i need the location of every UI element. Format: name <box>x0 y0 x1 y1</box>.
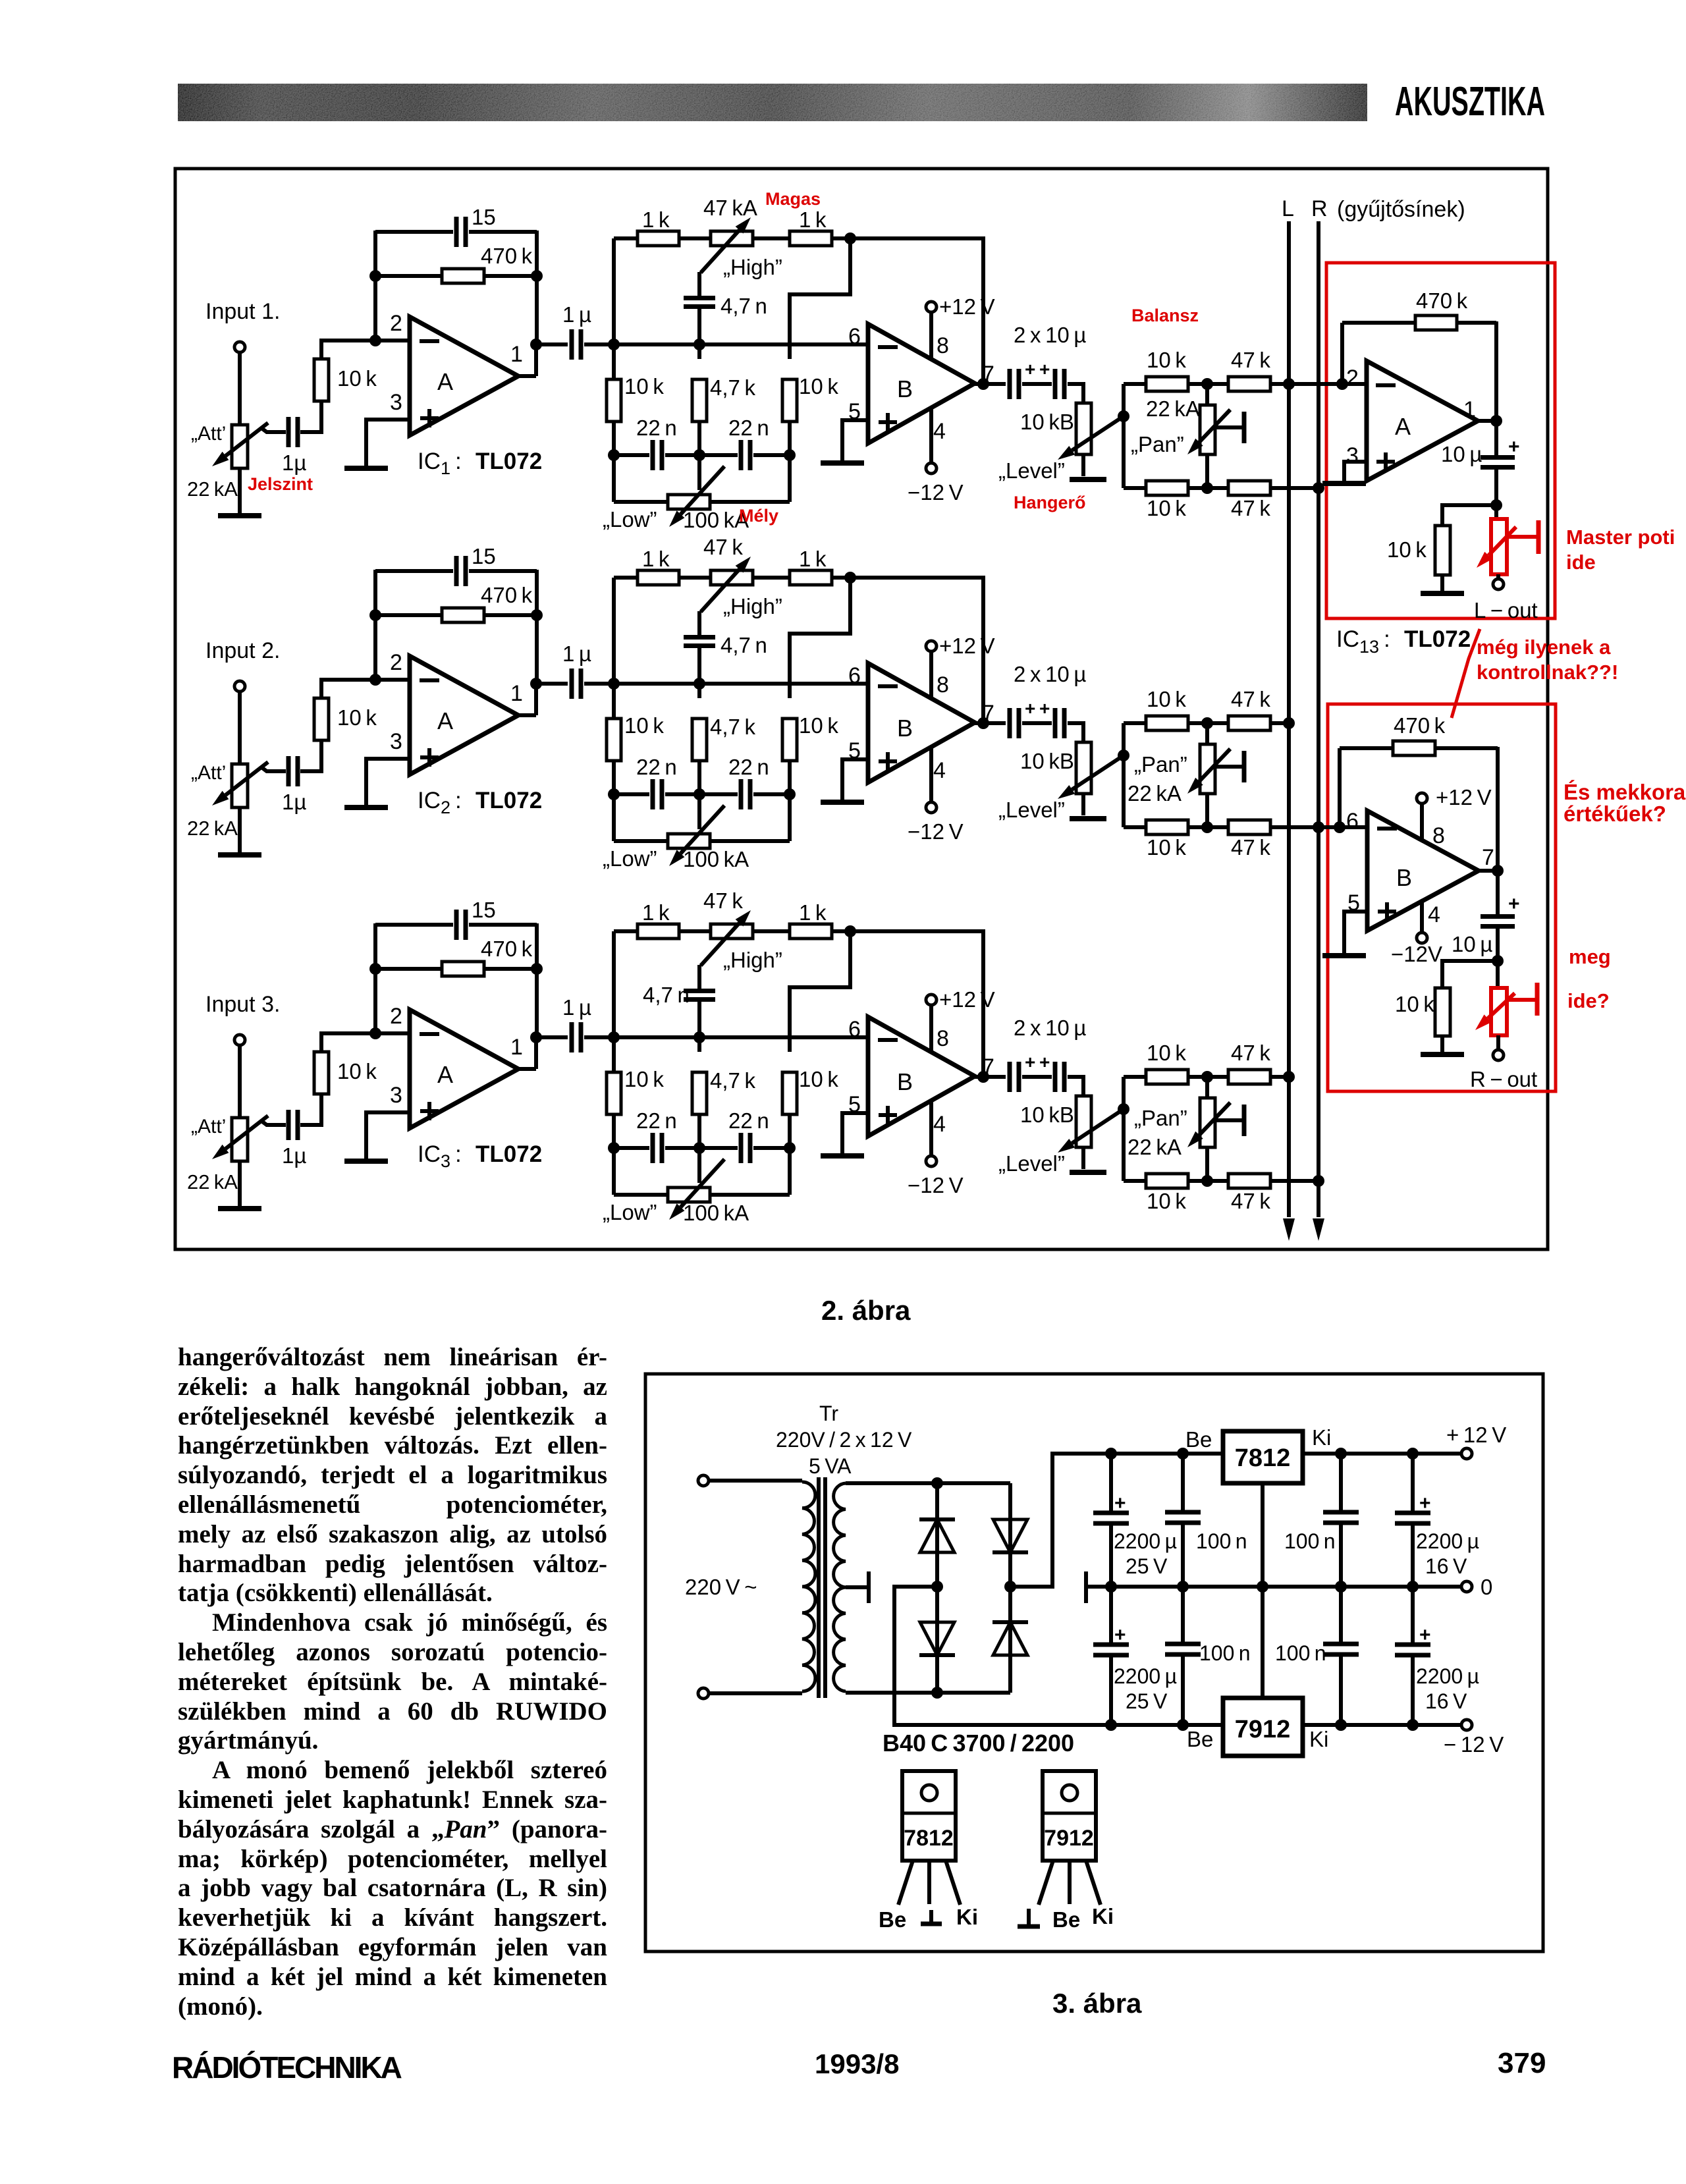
capacitor 2200µ 16V upper <box>1411 1454 1415 1513</box>
capacitor 22n left ch2 <box>614 792 649 796</box>
junction tone input ch2 <box>608 678 620 690</box>
svg-text:Tr: Tr <box>819 1402 838 1425</box>
svg-text:Ki: Ki <box>1312 1425 1331 1450</box>
resistor 10k series ch3 <box>314 1052 329 1094</box>
wire coupling cap to tone stack ch2 <box>584 682 614 686</box>
wire pot wiper to cap ch3 <box>261 1121 286 1125</box>
junction -rail c1 <box>1105 1719 1117 1731</box>
svg-text:−12 V: −12 V <box>908 819 964 844</box>
ground IC13-A <box>1322 481 1366 486</box>
svg-text:4,7 k: 4,7 k <box>710 1068 755 1093</box>
wire output to coupling cap ch1 <box>536 342 568 346</box>
ground level pot ch2 <box>1070 816 1106 821</box>
svg-text:1µ: 1µ <box>282 1143 306 1168</box>
wire pin5 to ground ch1 <box>842 420 868 461</box>
svg-text:22 n: 22 n <box>728 1108 769 1133</box>
svg-text:2 x 10 µ: 2 x 10 µ <box>1014 662 1086 686</box>
junction output node A ch2 <box>530 678 542 690</box>
capacitor 22n right ch1 <box>699 453 738 457</box>
svg-text:2: 2 <box>390 1004 402 1029</box>
capacitor 22n right ch3 <box>699 1146 738 1150</box>
svg-text:10 k: 10 k <box>1147 687 1186 711</box>
wire op-amp A output ch1 <box>518 374 536 378</box>
svg-text:„Low”: „Low” <box>603 1200 657 1224</box>
junction bass right ch1 <box>784 449 796 461</box>
svg-text:R: R <box>1311 196 1328 221</box>
svg-text:Master poti: Master poti <box>1566 526 1675 549</box>
resistor 10k shunt left ch3 <box>607 1072 621 1114</box>
wiper stub pan ch1 <box>1215 425 1244 429</box>
svg-text:4: 4 <box>933 758 946 783</box>
diode D3 <box>993 1550 1028 1554</box>
minus mark B ch1 <box>878 345 898 349</box>
potentiometer 100kA bass ch3 <box>612 1148 616 1195</box>
junction divider IC13-A <box>1490 499 1502 511</box>
junction pan pot bottom ch2 <box>1201 821 1213 833</box>
svg-text:22 n: 22 n <box>728 755 769 779</box>
ground op-amp B ch3 <box>821 1153 864 1159</box>
wire node to 10k IC13-B <box>1442 961 1498 988</box>
svg-text:22 n: 22 n <box>636 755 677 779</box>
svg-text:1 k: 1 k <box>642 900 670 925</box>
junction bass mid ch1 <box>693 449 705 461</box>
bus L line <box>1287 221 1291 1217</box>
svg-text:−12V: −12V <box>1391 942 1442 966</box>
power -12V pin4 ch2 <box>929 748 933 803</box>
capacitor 22n left ch3 <box>614 1146 649 1150</box>
svg-text:Ki: Ki <box>1092 1904 1114 1928</box>
svg-text:100 n: 100 n <box>1284 1529 1336 1553</box>
svg-text:„Pan”: „Pan” <box>1134 1106 1187 1130</box>
resistor 470k IC13-B <box>1340 746 1393 750</box>
resistor 1k treble right ch2 <box>790 570 832 585</box>
svg-text:3: 3 <box>390 729 402 754</box>
capacitor 100n lower right <box>1339 1587 1343 1644</box>
wire pot bottom to ground ch1 <box>238 468 242 514</box>
wire node to master pot IC13-A <box>1494 505 1498 520</box>
svg-text:7912: 7912 <box>1235 1716 1291 1743</box>
wire mid rail ch2 <box>614 682 868 686</box>
wire output to coupling cap ch3 <box>536 1035 568 1039</box>
junction pan pot top ch3 <box>1201 1071 1213 1083</box>
svg-text:1 µ: 1 µ <box>562 642 591 666</box>
wire 4,7k to bass ch3 <box>697 1114 701 1148</box>
junction -rail c3 <box>1335 1719 1347 1731</box>
svg-text:10 µ: 10 µ <box>1441 442 1482 466</box>
svg-text:„High”: „High” <box>723 594 782 618</box>
svg-text:Ki: Ki <box>1309 1727 1328 1751</box>
svg-text:A: A <box>437 707 453 734</box>
wire feedback to output IC13-A <box>1494 321 1498 421</box>
svg-text:7: 7 <box>1482 845 1494 870</box>
svg-text:10 k: 10 k <box>1147 1189 1186 1213</box>
svg-text:1µ: 1µ <box>282 450 306 475</box>
capacitor 4,7n ch3 <box>684 989 715 993</box>
svg-text:+: + <box>1419 1492 1431 1514</box>
junction bass left ch3 <box>608 1142 620 1154</box>
svg-text:+ 12 V: + 12 V <box>1446 1423 1506 1447</box>
ground 10k IC13-A <box>1421 591 1464 596</box>
svg-text:meg: meg <box>1569 945 1611 968</box>
capacitor 1µ coupling ch1 <box>570 329 574 360</box>
resistor 470k feedback ch3 <box>375 967 442 971</box>
svg-text:1 k: 1 k <box>642 207 670 232</box>
svg-text:„Att’: „Att’ <box>191 423 226 445</box>
svg-text:Magas: Magas <box>765 189 821 209</box>
wire 4,7n to mid rail ch3 <box>697 1000 701 1052</box>
wire input terminal to pot ch3 <box>238 1045 242 1120</box>
potentiometer 22kA pan ch3 <box>1205 1077 1209 1098</box>
potentiometer 100kA bass ch2 <box>612 794 616 841</box>
svg-text:Hangerő: Hangerő <box>1014 493 1086 512</box>
node -12V terminal <box>1461 1720 1472 1730</box>
node L-out terminal <box>1493 579 1504 589</box>
svg-text:10 k: 10 k <box>1147 496 1186 520</box>
junction R bus ch2 <box>1313 821 1324 833</box>
wire B output ch3 <box>975 1075 1006 1079</box>
wire 4,7n to mid rail ch1 <box>697 307 701 359</box>
svg-text:Mély: Mély <box>739 506 778 526</box>
svg-text:−12 V: −12 V <box>908 480 964 505</box>
junction bridge plus <box>1004 1581 1016 1593</box>
minus mark IC13-B <box>1377 827 1397 831</box>
junction treble out ch3 <box>844 925 856 937</box>
svg-text:8: 8 <box>937 1026 949 1051</box>
junction AC2 left column <box>931 1687 943 1699</box>
bus L arrow <box>1283 1218 1295 1241</box>
wire treble jog ch2 <box>790 578 850 698</box>
svg-text:22 kA: 22 kA <box>1128 781 1182 805</box>
wire bass row left ch2 <box>612 761 616 794</box>
junction output IC13-A <box>1490 415 1502 427</box>
capacitor 2200µ 25V upper <box>1109 1454 1113 1513</box>
svg-text:25 V: 25 V <box>1126 1554 1168 1578</box>
junction bass right ch3 <box>784 1142 796 1154</box>
svg-text:Jelszint: Jelszint <box>248 474 313 494</box>
junction AC1 left column <box>931 1477 943 1489</box>
figure 2 frame <box>175 169 1548 1249</box>
svg-text:TL072: TL072 <box>476 449 542 474</box>
svg-text:+: + <box>1114 1624 1126 1646</box>
wire pin5 to ground ch3 <box>842 1113 868 1154</box>
svg-text:„Low”: „Low” <box>603 507 657 532</box>
svg-text:0: 0 <box>1481 1575 1492 1599</box>
wire caps to level pot ch2 <box>1068 723 1083 742</box>
wire level pot to ground ch2 <box>1081 794 1085 815</box>
power +12V IC13-B <box>1420 803 1424 840</box>
wire L bus to pin2 IC13-A <box>1289 382 1367 386</box>
node primary bottom terminal <box>698 1688 709 1699</box>
svg-text:2: 2 <box>1346 366 1359 391</box>
junction bass right ch2 <box>784 788 796 800</box>
resistor 47k pan top ch1 <box>1228 377 1270 391</box>
capacitor 2x10µ ch1 <box>1008 369 1012 399</box>
ground level pot ch1 <box>1070 477 1106 482</box>
svg-text:B: B <box>897 715 913 742</box>
svg-text:+ +: + + <box>1025 359 1050 379</box>
svg-text:kontrollnak??!: kontrollnak??! <box>1477 661 1618 684</box>
svg-text:47 k: 47 k <box>1231 835 1270 860</box>
resistor 47k pan top ch3 <box>1228 1070 1270 1084</box>
wire feedback right riser ch3 <box>535 923 539 1039</box>
capacitor 15p feedback ch3 <box>375 923 453 927</box>
svg-text:IC3 :: IC3 : <box>418 1141 462 1171</box>
wire treble wiper to 4,7n ch3 <box>697 965 701 991</box>
wire output IC13-B <box>1479 869 1498 873</box>
wire op-amp A output ch3 <box>518 1067 536 1071</box>
regulator 7912 <box>1223 1698 1303 1756</box>
svg-text:10 k: 10 k <box>1395 992 1434 1016</box>
wire cap to node IC13-B <box>1496 927 1500 961</box>
svg-text:10 k: 10 k <box>799 1067 838 1091</box>
svg-text:15: 15 <box>472 205 496 229</box>
junction +rail c4 <box>1407 1448 1419 1460</box>
svg-text:220V / 2 x 12 V: 220V / 2 x 12 V <box>776 1428 912 1452</box>
node +12V terminal <box>1461 1448 1472 1459</box>
junction pin2/feedback ch2 <box>369 674 381 686</box>
ground IC13-B <box>1322 953 1366 958</box>
wire pin3 to ground ch3 <box>366 1112 410 1159</box>
potentiometer master R (red) <box>1491 988 1507 1035</box>
svg-text:+12 V: +12 V <box>939 634 995 658</box>
junction output IC13-B <box>1492 865 1504 877</box>
svg-text:470 k: 470 k <box>481 583 533 607</box>
svg-text:„Att’: „Att’ <box>191 762 226 784</box>
wire right shunt to bottom ch3 <box>788 1114 792 1195</box>
wire treble rail to B output ch2 <box>850 578 983 723</box>
wire 10k to ground IC13-B <box>1440 1036 1444 1052</box>
svg-text:10 k: 10 k <box>1387 537 1427 562</box>
svg-text:7812: 7812 <box>904 1826 954 1851</box>
svg-text:4,7 n: 4,7 n <box>643 983 690 1007</box>
minus mark IC13-A <box>1376 383 1396 387</box>
wire bass wiper ch1 <box>697 455 701 490</box>
wire output to cap IC13-B <box>1496 871 1500 915</box>
svg-text:8: 8 <box>937 333 949 358</box>
svg-text:Be: Be <box>1185 1427 1212 1452</box>
potentiometer 47kA treble ch2 <box>711 570 753 585</box>
resistor 470k IC13-A <box>1342 321 1415 325</box>
wire feedback riser ch1 <box>373 231 377 341</box>
svg-text:25 V: 25 V <box>1126 1689 1168 1713</box>
wire -12V rail after regulator <box>1303 1723 1461 1727</box>
svg-text:Ki: Ki <box>956 1905 978 1929</box>
potentiometer 47kA treble ch1 <box>711 231 753 246</box>
wire tone stack left riser ch1 <box>612 238 616 502</box>
capacitor 15p feedback ch2 <box>375 569 453 573</box>
wire plus output <box>1010 1454 1223 1587</box>
junction bass mid ch2 <box>693 788 705 800</box>
wire pan riser ch2 <box>1122 723 1126 827</box>
svg-text:15: 15 <box>472 898 496 922</box>
svg-text:TL072: TL072 <box>1404 626 1471 652</box>
wire pin5 to ground IC13-B <box>1344 912 1367 954</box>
regulator 7812 <box>1223 1431 1303 1483</box>
svg-text:8: 8 <box>937 672 949 697</box>
svg-text:Be: Be <box>1052 1907 1080 1932</box>
op-amp IC3-A <box>410 1010 518 1128</box>
wire feedback right riser ch2 <box>535 570 539 685</box>
svg-text:B40 C 3700 / 2200: B40 C 3700 / 2200 <box>883 1730 1074 1757</box>
op-amp IC2-B <box>868 663 975 782</box>
svg-text:100 n: 100 n <box>1196 1529 1247 1553</box>
junction tone input ch3 <box>608 1031 620 1043</box>
svg-text:10 µ: 10 µ <box>1452 932 1492 956</box>
wire cap to resistor 10k ch2 <box>300 741 321 771</box>
svg-text:100 kA: 100 kA <box>683 1201 749 1225</box>
svg-text:1 k: 1 k <box>799 547 827 571</box>
potentiometer 22kA input attenuator ch1 <box>232 425 248 468</box>
junction -rail c2 <box>1177 1719 1189 1731</box>
wire caps to level pot ch3 <box>1068 1077 1083 1096</box>
junction mid rail ch1 <box>693 339 705 350</box>
wire minus output <box>894 1587 1223 1725</box>
wire B output ch1 <box>975 382 1006 386</box>
svg-text:IC1 :: IC1 : <box>418 449 462 478</box>
minus input mark ch2 <box>420 678 439 682</box>
wire mid rail ch3 <box>614 1035 868 1039</box>
wire treble jog ch3 <box>790 931 850 1052</box>
resistor 1k treble left ch1 <box>614 236 638 240</box>
svg-text:„Pan”: „Pan” <box>1134 752 1187 777</box>
svg-text:A: A <box>1395 413 1411 440</box>
capacitor 22n right ch2 <box>699 792 738 796</box>
wire coupling cap to tone stack ch3 <box>584 1035 614 1039</box>
wire right shunt to bottom ch1 <box>788 422 792 502</box>
annotation box R output <box>1328 704 1556 1091</box>
power +12V pin8 ch3 <box>929 1004 933 1052</box>
wire input terminal to pot ch1 <box>238 352 242 427</box>
svg-text:22 n: 22 n <box>636 1108 677 1133</box>
ground op-amp B ch2 <box>821 800 864 805</box>
potentiometer 22kA input attenuator ch2 <box>232 764 248 807</box>
resistor 4,7k ch3 <box>692 1072 707 1114</box>
potentiometer 22kA input attenuator ch3 <box>232 1118 248 1161</box>
junction pan pot top ch2 <box>1201 717 1213 729</box>
svg-text:22 kA: 22 kA <box>187 1170 238 1193</box>
wire bass wiper ch3 <box>697 1148 701 1183</box>
svg-text:L − out: L − out <box>1474 598 1538 622</box>
wire to op-amp pin2 ch3 <box>321 1033 410 1052</box>
svg-text:4,7 k: 4,7 k <box>710 375 755 400</box>
ground input pot ch3 <box>218 1206 261 1211</box>
junction L bus ch3 <box>1283 1071 1295 1083</box>
ground op-amp A ch2 <box>344 805 388 810</box>
wire bridge left column <box>935 1483 939 1693</box>
resistor 47k pan bottom ch1 <box>1228 481 1270 495</box>
svg-text:10 k: 10 k <box>337 705 377 730</box>
plus mark B ch1 <box>879 420 897 424</box>
svg-text:1: 1 <box>510 1035 523 1060</box>
wire feedback right riser ch1 <box>535 231 539 346</box>
capacitor 2x10µ ch3 <box>1008 1062 1012 1092</box>
junction treble out ch1 <box>844 232 856 244</box>
junction 0rail c1 <box>1105 1581 1117 1593</box>
wire to op-amp pin2 ch2 <box>321 680 410 698</box>
potentiometer 22kA pan ch1 <box>1205 384 1209 405</box>
svg-text:10 k: 10 k <box>1147 1041 1186 1065</box>
wire pan riser ch1 <box>1122 384 1126 488</box>
node Input 3 terminal <box>234 1035 245 1045</box>
capacitor 4,7n ch2 <box>684 635 715 640</box>
wire treble wiper to 4,7n ch2 <box>697 611 701 637</box>
junction B output feedback ch1 <box>977 378 989 390</box>
junction output node A ch1 <box>530 339 542 350</box>
op-amp IC1-A <box>410 317 518 435</box>
power -12V pin4 ch1 <box>929 408 933 464</box>
svg-text:IC2 :: IC2 : <box>418 788 462 817</box>
capacitor 2x10µ ch2 <box>1008 708 1012 738</box>
junction pan input ch2 <box>1118 750 1129 761</box>
svg-text:16 V: 16 V <box>1425 1689 1467 1713</box>
junction 470k right ch2 <box>531 609 543 621</box>
annotation callout line <box>1452 629 1480 718</box>
svg-text:4: 4 <box>1428 902 1440 927</box>
svg-text:10 k: 10 k <box>799 374 838 398</box>
op-amp IC1-B <box>868 324 975 443</box>
junction R bus ch1 <box>1313 482 1324 494</box>
wire 4,7k to bass ch1 <box>697 422 701 455</box>
svg-text:−12 V: −12 V <box>908 1173 964 1197</box>
caption 3. abra <box>1052 1988 1141 2019</box>
svg-text:R − out: R − out <box>1470 1067 1537 1091</box>
svg-text:10 k: 10 k <box>624 713 664 738</box>
resistor 10k IC13-B <box>1435 988 1450 1036</box>
potentiometer 22kA pan ch2 <box>1205 723 1209 744</box>
wire R bus to pin6 IC13-B <box>1319 825 1367 829</box>
wire level pot to ground ch3 <box>1081 1147 1085 1169</box>
svg-text:10 kB: 10 kB <box>1020 749 1074 773</box>
svg-text:22 kA: 22 kA <box>187 817 238 840</box>
svg-text:És mekkora: És mekkora <box>1564 780 1686 804</box>
junction bass mid ch3 <box>693 1142 705 1154</box>
junction 0rail c2 <box>1177 1581 1189 1593</box>
svg-text:B: B <box>897 1068 913 1095</box>
resistor 10k pan bottom ch1 <box>1124 486 1146 490</box>
junction L bus ch2 <box>1283 717 1295 729</box>
power -12V IC13-B <box>1420 901 1424 933</box>
footer journal name <box>172 2050 400 2085</box>
svg-text:2200 µ: 2200 µ <box>1416 1529 1479 1553</box>
wire cap to resistor 10k ch1 <box>300 402 321 432</box>
svg-text:10 k: 10 k <box>337 1059 377 1083</box>
junction 470k left ch1 <box>369 270 381 282</box>
svg-text:4: 4 <box>933 419 946 444</box>
wire bass wiper ch2 <box>697 794 701 829</box>
annotation box L output <box>1326 263 1555 618</box>
svg-text:47 k: 47 k <box>1231 1041 1270 1065</box>
wire op-amp A output ch2 <box>518 713 536 717</box>
diode D2 <box>919 1653 955 1657</box>
svg-text:„Level”: „Level” <box>998 1151 1065 1176</box>
svg-text:2200 µ: 2200 µ <box>1114 1664 1177 1688</box>
wire pot wiper to cap ch1 <box>261 428 286 432</box>
plus input mark ch1 <box>420 416 439 420</box>
svg-text:10 k: 10 k <box>337 366 377 391</box>
svg-text:3: 3 <box>390 1083 402 1108</box>
ground symbol pkg2 <box>1027 1909 1031 1926</box>
node Input 2 terminal <box>234 681 245 692</box>
footer page number <box>1498 2047 1546 2080</box>
svg-text:+ +: + + <box>1025 698 1050 719</box>
junction pan pot bottom ch3 <box>1201 1175 1213 1187</box>
resistor 10k pan top ch2 <box>1124 721 1146 725</box>
ground input pot ch1 <box>218 513 261 518</box>
svg-text:+: + <box>1419 1624 1431 1646</box>
svg-text:+: + <box>1508 436 1520 458</box>
svg-text:3: 3 <box>1346 443 1359 468</box>
svg-text:2200 µ: 2200 µ <box>1416 1664 1479 1688</box>
